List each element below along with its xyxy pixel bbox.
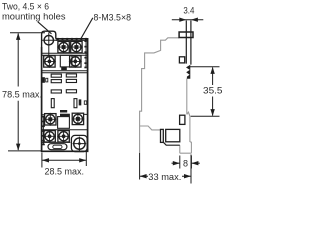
separator line below row4 (42, 141, 71, 143)
dim 3.4: dimension line (172, 19, 204, 21)
label: Two, 4.5 x 6 mounting holes (2, 2, 66, 23)
vertical slot right (74, 99, 77, 108)
svg-text:78.5 max.: 78.5 max. (2, 90, 42, 101)
svg-text:3.4: 3.4 (183, 5, 194, 16)
mounting tab top-left (42, 31, 56, 47)
terminal screw 8 (57, 130, 70, 143)
terminal screw 7 (43, 130, 56, 143)
mounting hole circle bottom-right (74, 138, 85, 149)
label 35.5 (203, 86, 223, 97)
left edge slot mark filled (42, 77, 45, 83)
dim 35.5: arrows (210, 67, 214, 116)
dim 8: arrow left outside (172, 162, 180, 164)
dim 35.5: top extension (190, 66, 220, 68)
mounting hole crosshair (41, 32, 56, 55)
right edge slot mark filled (79, 99, 82, 105)
vent slots column A (51, 74, 61, 93)
dim 33: dimension line (140, 175, 191, 177)
top comb ticks (57, 38, 87, 41)
label: 8-M3.5x8 (94, 13, 132, 24)
dim 8: arrow right outside (192, 162, 200, 164)
mounting hole circle top-left (44, 36, 53, 45)
relay window lower (58, 117, 70, 129)
separator line above row3 (42, 113, 88, 115)
terminal screw 5 (44, 113, 57, 126)
label 78.5 max. (2, 90, 42, 101)
dim 78.5: vertical dimension line (17, 33, 19, 150)
rail channel walls (186, 21, 191, 65)
clip main box (166, 129, 180, 141)
side top edge (140, 38, 180, 153)
terminal screw 3 (43, 55, 56, 68)
vertical slot left (51, 99, 54, 108)
dim 35.5: bottom extension (191, 115, 220, 117)
right comb ticks (84, 40, 86, 68)
terminal screw pads row4 (44, 131, 55, 142)
label 8 (183, 158, 188, 168)
terminal screw 4 (69, 55, 82, 68)
side right edge upper (186, 79, 188, 115)
separator lines below row1 (42, 53, 88, 55)
top edge inner line (56, 39, 88, 41)
latch spring zigzag (186, 65, 190, 79)
left comb ticks (42, 116, 44, 146)
latch peak (187, 112, 190, 116)
side base step (140, 126, 161, 130)
mounting pad bottom-right (71, 135, 87, 151)
separator lines below row2 (42, 71, 88, 73)
dim 28.5: dimension line (42, 159, 86, 161)
right edge slot mark outline (84, 101, 86, 104)
small box upper (rail lip) (179, 57, 184, 63)
side view profile (gray) (140, 38, 192, 153)
leader line to terminal screw (81, 18, 93, 39)
svg-text:8: 8 (183, 158, 188, 168)
dim 78.5: top extension line (10, 32, 45, 34)
dim 33: arrows (140, 174, 191, 178)
label 33 max. (148, 172, 181, 183)
dim 78.5: arrows (16, 33, 20, 151)
left edge slot mark outline (46, 78, 48, 82)
svg-text:35.5: 35.5 (203, 86, 223, 97)
clip recess stadium (48, 144, 67, 150)
black bar below upper window (61, 67, 67, 70)
label 28.5 max. (45, 167, 85, 178)
dim 28.5: extension lines (42, 150, 86, 168)
dim 35.5: vertical dimension line (212, 67, 214, 115)
terminal screw 6 (72, 113, 85, 125)
svg-text:8-M3.5×8: 8-M3.5×8 (94, 13, 132, 24)
din hook box (179, 32, 193, 38)
leader line to mounting hole (38, 22, 52, 34)
black bars above lower window (60, 110, 67, 113)
dim 8: extension lines (180, 156, 192, 169)
rail foot (180, 142, 192, 153)
vent slots column B (66, 74, 76, 93)
svg-text:33 max.: 33 max. (148, 172, 181, 183)
dim 33: extension lines (140, 153, 191, 184)
side right edge lower (189, 116, 191, 142)
terminal screw pads row3 (45, 114, 56, 125)
clip thin bar (161, 129, 164, 142)
clip recess inner (53, 145, 62, 148)
svg-text:28.5 max.: 28.5 max. (45, 167, 85, 178)
clip chamfer and bottom (163, 142, 180, 145)
terminal screw 1 (57, 41, 70, 54)
front view body outline (42, 39, 88, 152)
baseline extension bottom-left (8, 150, 42, 152)
dim 28.5: arrows (42, 158, 86, 162)
svg-text:mounting holes: mounting holes (2, 12, 66, 23)
mounting hole crosshair bottom-right (73, 137, 87, 151)
separator line below row3 (42, 129, 88, 131)
terminal screw 2 (70, 41, 83, 54)
relay window upper (60, 55, 72, 67)
left edge inner line lower (42, 116, 44, 145)
small box lower (rail lip) (180, 115, 185, 124)
dim 3.4: arrows (179, 18, 198, 22)
terminal screw pads row2 (44, 56, 55, 67)
label 3.4 (183, 5, 194, 16)
terminal screw pads row1 (58, 41, 69, 52)
right edge inner line upper (85, 40, 87, 67)
